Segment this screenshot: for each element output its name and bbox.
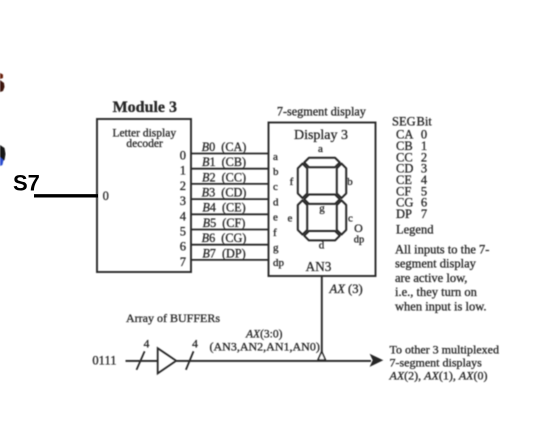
7-seg segment g [304, 195, 340, 215]
svg-text:B3 (CD): B3 (CD) [202, 186, 247, 200]
bus width slash 4 (left) [137, 338, 150, 370]
svg-text:B1 (CB): B1 (CB) [202, 155, 246, 169]
buffer U3 [158, 348, 177, 373]
7-seg segment a [304, 143, 340, 167]
svg-text:B2 (CC): B2 (CC) [202, 170, 246, 184]
svg-text:decoder: decoder [126, 138, 163, 150]
7-seg segment f [290, 164, 308, 199]
svg-text:B7 (DP): B7 (DP) [202, 246, 245, 260]
wire B3 (CD): decoder pin 3 to display pin d [180, 186, 279, 209]
svg-text:0111: 0111 [92, 353, 116, 367]
svg-text:All inputs to the 7-: All inputs to the 7- [395, 242, 489, 256]
svg-text:S7: S7 [13, 170, 40, 195]
svg-text:5: 5 [180, 225, 186, 239]
svg-text:2: 2 [180, 179, 186, 193]
7-seg segment e [288, 200, 308, 234]
svg-text:e: e [288, 213, 293, 225]
svg-text:4: 4 [192, 338, 198, 350]
svg-text:To other 3 multiplexed: To other 3 multiplexed [390, 343, 499, 357]
7-seg segment b [337, 164, 353, 199]
wire B5 (CF): decoder pin 5 to display pin f [180, 216, 277, 239]
bus width slash 4 (right) [186, 338, 198, 370]
svg-text:6: 6 [180, 240, 186, 254]
bus wire: buffer to arrow [176, 360, 371, 362]
svg-text:B0 (CA): B0 (CA) [202, 140, 247, 154]
svg-text:c: c [348, 213, 353, 225]
svg-text:DP: DP [396, 207, 412, 221]
svg-text:7-segment display: 7-segment display [277, 105, 367, 119]
svg-text:AX(2), AX(1), AX(0): AX(2), AX(1), AX(0) [389, 369, 488, 383]
svg-text:f: f [290, 176, 294, 188]
svg-text:i.e., they turn on: i.e., they turn on [395, 285, 478, 299]
svg-text:g: g [273, 242, 279, 254]
svg-text:d: d [273, 196, 279, 208]
wire B4 (CE): decoder pin 4 to display pin e [180, 201, 278, 224]
svg-text:segment display: segment display [395, 257, 477, 271]
svg-text:when input is low.: when input is low. [395, 299, 487, 313]
svg-text:a: a [318, 143, 323, 155]
decoder U1: Letter display decoder box [97, 119, 191, 272]
wire B2 (CC): decoder pin 2 to display pin c [180, 170, 278, 193]
svg-text:0: 0 [103, 189, 109, 203]
svg-text:AN3: AN3 [306, 259, 332, 274]
svg-text:dp: dp [354, 234, 365, 245]
junction: open triangle tap on bus [318, 352, 326, 361]
svg-text:Display 3: Display 3 [294, 128, 348, 143]
svg-text:B4 (CE): B4 (CE) [202, 201, 245, 215]
svg-text:a: a [273, 151, 278, 163]
bus wire: 0111 to buffer [126, 360, 158, 362]
wire: S7 input to decoder [34, 194, 98, 197]
svg-text:are active low,: are active low, [395, 271, 467, 285]
svg-text:b: b [273, 166, 279, 178]
svg-text:Module 3: Module 3 [113, 99, 177, 116]
svg-text:dp: dp [273, 257, 285, 269]
svg-text:Legend: Legend [396, 223, 434, 237]
note: To other 3 multiplexed 7-segment displays [389, 343, 499, 383]
legend note paragraph [395, 242, 489, 313]
decimal point O and dp label [354, 221, 365, 245]
svg-text:B5 (CF): B5 (CF) [203, 216, 246, 230]
7-seg segment c [337, 200, 353, 234]
7-seg segment d [304, 231, 340, 251]
svg-text:3: 3 [180, 194, 186, 208]
arrowhead on bus [370, 354, 384, 367]
svg-text:e: e [273, 212, 278, 224]
svg-text:O: O [354, 221, 363, 235]
svg-text:1: 1 [180, 164, 186, 178]
wire B7 (DP): decoder pin 7 to display pin dp [180, 246, 285, 269]
wire B0 (CA): decoder pin 0 to display pin a [180, 140, 278, 163]
wire B1 (CB): decoder pin 1 to display pin b [180, 155, 279, 178]
svg-text:AX (3): AX (3) [329, 282, 363, 296]
svg-text:7: 7 [180, 255, 186, 269]
svg-text:Array of BUFFERs: Array of BUFFERs [126, 311, 220, 325]
svg-text:b: b [347, 176, 353, 188]
svg-text:d: d [319, 239, 325, 251]
svg-text:(AN3,AN2,AN1,AN0): (AN3,AN2,AN1,AN0) [210, 340, 320, 354]
svg-text:f: f [273, 227, 277, 239]
svg-text:4: 4 [144, 338, 150, 350]
svg-text:0: 0 [180, 149, 186, 163]
svg-text:SEG: SEG [392, 115, 416, 129]
svg-text:B6 (CG): B6 (CG) [202, 231, 247, 245]
wire AX(3): display AN3 to bus [321, 276, 323, 354]
svg-text:Bit: Bit [417, 115, 433, 129]
svg-text:4: 4 [180, 209, 187, 223]
legend rows: CA-DP bit assignments [396, 128, 428, 222]
svg-text:c: c [273, 181, 278, 193]
svg-text:7: 7 [421, 207, 427, 221]
display U2: 7-segment display box [269, 123, 376, 277]
wire B6 (CG): decoder pin 6 to display pin g [180, 231, 279, 254]
svg-text:7-segment displays: 7-segment displays [390, 356, 483, 370]
svg-text:g: g [319, 203, 325, 215]
